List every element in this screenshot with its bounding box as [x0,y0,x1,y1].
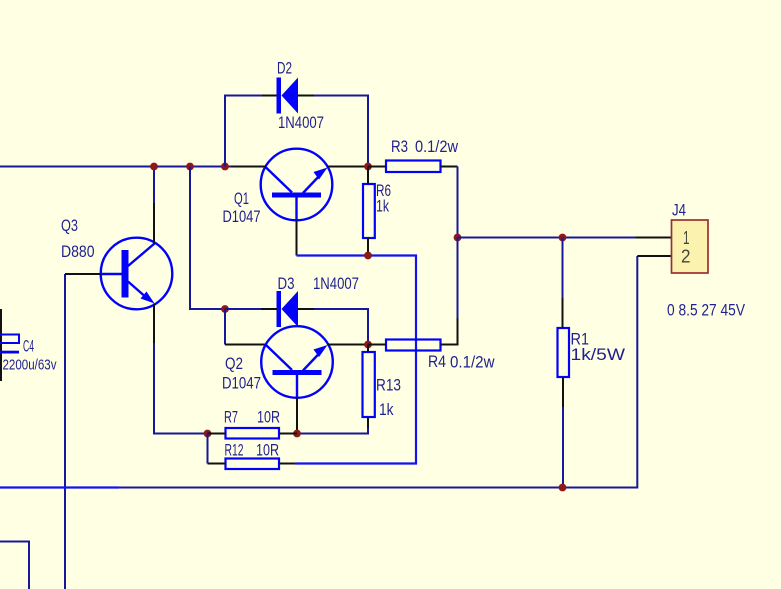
svg-text:R12: R12 [225,442,244,460]
pin R4 right [441,318,458,345]
resistor R6 [363,182,391,238]
svg-text:2: 2 [681,246,691,267]
pin Q2 base [296,398,298,434]
wire bottom bright segment [0,486,119,488]
svg-text:R7: R7 [224,409,238,427]
wire bottom net [119,256,637,488]
wire R12 left up [207,434,209,464]
node junction (457.5,237.5) [454,234,462,242]
svg-text:1k: 1k [379,401,394,419]
node junction (368,255.5) [364,252,372,260]
pin D3 cathode [298,308,314,310]
svg-text:1k: 1k [376,198,390,216]
pin J4 pin1 wire [636,237,672,239]
pin Q2 emitter [327,344,368,346]
diode D2 [277,60,325,133]
pin R12 right [279,463,295,465]
wire D2 loop [225,96,262,167]
pin J4 pin2 wire [637,255,671,257]
pin R3 right [441,166,458,168]
wire R4 up to node [457,238,459,319]
node junction (190,166.5) [186,163,194,171]
pin Q1 base [296,221,298,256]
connector J4 [672,202,709,274]
svg-text:10R: 10R [257,409,280,427]
svg-text:1k/5W: 1k/5W [571,346,626,364]
svg-text:Q2: Q2 [225,355,243,373]
pin Q2 collector [225,344,266,346]
wire R1 bottom [562,407,564,488]
resistor R7 [224,409,280,439]
wire R13 to base row [297,428,368,434]
pin D2 cathode [298,95,314,97]
node junction (562.5,237.5) [559,234,567,242]
wire Q3 base vertical x65 [64,274,66,589]
pin R13 top [367,345,369,353]
svg-text:0 8.5 27 45V: 0 8.5 27 45V [667,302,745,320]
pin R1 top [562,298,564,328]
svg-text:Q1: Q1 [234,190,249,208]
node junction (368,166.5) [364,163,372,171]
node junction (154,166.5) [150,163,158,171]
svg-text:1N4007: 1N4007 [278,114,324,132]
wire node to J4 pin1 [458,237,636,239]
svg-text:D1047: D1047 [223,208,261,226]
pin R6 top [367,167,369,185]
transistor Q2 [222,326,333,398]
pin R7 right [279,433,297,435]
pin Q1 emitter [327,166,368,168]
pin R3 left [368,166,386,168]
wire main horizontal net [0,166,231,168]
svg-text:1N4007: 1N4007 [313,275,359,293]
svg-text:R13: R13 [376,377,401,395]
wire R1 top [562,238,564,299]
wire D3 left [225,308,261,310]
transistor Q3 [61,217,172,309]
wire bright base net [295,256,416,464]
pin Q3 emitter [153,304,155,344]
svg-text:D3: D3 [278,275,295,293]
diode D3 [277,275,360,327]
pin R12 left [208,463,226,465]
pin D2 anode [262,95,277,97]
svg-text:R3: R3 [391,138,408,156]
svg-text:0.1/2w: 0.1/2w [450,354,495,372]
svg-text:D2: D2 [277,60,292,78]
node junction (297,433.5) [293,430,301,438]
pin R6 bottom [367,238,369,256]
node junction (207.5,433.5) [204,430,212,438]
node junction (225,309) [221,305,229,313]
wire Q3 emitter down [153,343,155,435]
transistor Q1 [223,149,333,226]
svg-text:R4: R4 [428,353,446,371]
wire Q2 collector net [224,309,226,345]
svg-text:10R: 10R [256,442,279,460]
resistor R12 [225,442,280,470]
svg-text:D1047: D1047 [222,375,261,393]
pin Q3 collector [153,203,155,244]
resistor R4 [386,340,495,372]
pin R13 bottom [367,417,369,428]
capacitor C4 [0,309,57,381]
svg-text:Q3: Q3 [61,217,78,235]
resistor R13 [363,352,402,419]
pin R4 left [368,344,386,346]
svg-text:C4: C4 [23,338,34,356]
svg-text:D880: D880 [61,243,95,261]
wire x190 vertical to D3 row [190,167,225,310]
resistor R1 [558,328,626,377]
wire Q3 collector to main [153,167,155,204]
resistor R3 [386,138,458,172]
wire bottom-left L [0,542,29,589]
pin D3 anode [261,308,277,310]
pin R7 left [208,433,226,435]
node junction (368,344.5) [364,341,372,349]
pin R1 bottom [562,377,564,407]
svg-text:0.1/2w: 0.1/2w [415,138,458,156]
svg-text:J4: J4 [672,202,686,220]
pin Q3 base [65,273,101,275]
wire emitter row to R7 [154,433,208,435]
node junction (562.5,487.5) [559,484,567,492]
wire R3 to node [457,167,459,238]
node junction (225,166.5) [221,163,229,171]
wire D3 right down [314,309,368,345]
svg-text:2200u/63v: 2200u/63v [3,358,58,374]
pin Q1 collector [231,166,266,168]
